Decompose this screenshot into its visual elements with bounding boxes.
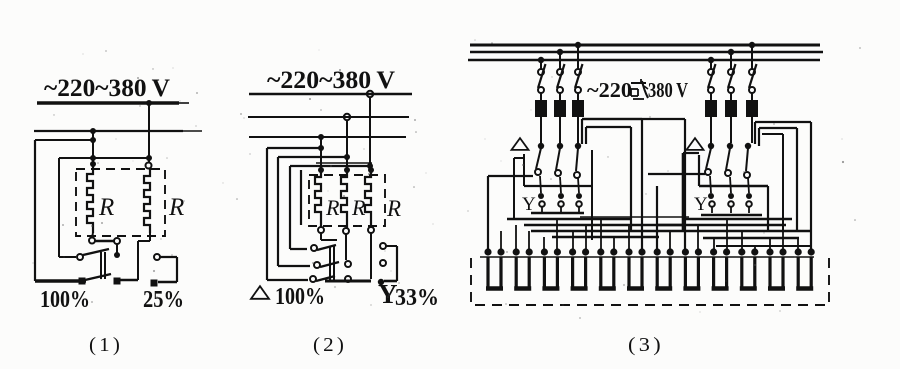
crossing wire at resistor tops: [316, 162, 372, 164]
triangle symbol (100%): [251, 286, 269, 299]
triangle symbol (left group): [512, 138, 529, 150]
resistor R2 (right comb): [144, 168, 150, 233]
resistor comb R2 (circuit 2): [341, 170, 347, 228]
knife switch + fuse column B (right group): [725, 49, 737, 143]
label Y (left group): [522, 194, 536, 215]
outer left wire bottom to terminal: [35, 279, 86, 282]
contact circle above right resistor: [146, 163, 152, 169]
dashed enclosure (circuit 1 resistor box): [76, 169, 165, 236]
routing wire y246 right: [716, 245, 811, 247]
label 100% (circuit 2): [275, 284, 325, 310]
resistor bank grid (11 U elements): [480, 257, 814, 289]
routing wire y237 right: [703, 237, 799, 239]
label R (right of box): [168, 194, 184, 221]
caption (3): [628, 334, 664, 356]
wire centre terminal to R2 bottom: [120, 233, 150, 280]
svg-text:R: R: [386, 196, 401, 221]
switch blades circuit2: [316, 245, 339, 281]
wire R1 bottom to centre contact: [95, 240, 114, 243]
phase wire V3: [318, 137, 324, 168]
wire top route 2 (right): [759, 128, 797, 232]
dashed enclosure (circuit 2 resistor box): [309, 175, 385, 226]
svg-text:25%: 25%: [143, 287, 184, 313]
switch blade lower: [85, 274, 111, 280]
caption (1): [89, 334, 123, 356]
knife switch + fuse column A (left group): [535, 57, 547, 143]
knife switch + fuse column C (right group): [746, 42, 758, 143]
routing wire y219 right: [683, 218, 792, 220]
left contact circles (delta switch): [310, 245, 320, 282]
tap wire 2 (V2 to left rail): [278, 157, 347, 266]
wire phase tap down to R (right vertical): [146, 103, 152, 162]
resistor comb R1 (circuit 2): [315, 170, 321, 228]
outer left wire down: [34, 140, 36, 281]
triangle symbol (right group): [687, 138, 704, 150]
supply line L1 (circuit 2): [249, 93, 412, 95]
label 380V: [648, 78, 688, 102]
wire top route 1 (left): [582, 119, 642, 250]
label R (inside box): [98, 194, 114, 221]
routing wire y237: [552, 236, 659, 238]
Y common bar (left group): [531, 212, 584, 215]
scan speckle noise: [32, 39, 861, 319]
wire inner left down: [59, 158, 149, 260]
label 100%: [40, 287, 90, 313]
routing wire y225: [524, 224, 683, 226]
svg-text:100%: 100%: [40, 287, 90, 313]
switch blade upper: [83, 249, 109, 255]
svg-text:100%: 100%: [275, 284, 325, 310]
tap wire 1 (V3 to left rail): [267, 148, 321, 280]
frame wire left cluster: [514, 150, 592, 240]
terminal square centre: [114, 278, 121, 285]
tap wire 3 (V1 to left rail): [290, 166, 370, 249]
svg-text:~220~380 V: ~220~380 V: [267, 67, 395, 94]
routing wire y225 right: [657, 224, 786, 226]
bus line B2: [470, 51, 823, 53]
hanzi huo (or): [631, 79, 648, 99]
svg-text:~220: ~220: [587, 78, 632, 102]
dashed enclosure (resistor bank): [471, 258, 829, 305]
wire feed drop to bank leg 1: [487, 176, 489, 250]
contact circle tap on L2: [344, 114, 350, 120]
wire top route 3 (right): [762, 134, 783, 232]
svg-text:380 V: 380 V: [648, 78, 688, 102]
wire comb2 bottom down: [345, 234, 347, 260]
label R second: [351, 195, 366, 220]
knife switch + fuse column A (right group): [705, 57, 717, 143]
contact circles at comb bottoms: [318, 227, 374, 234]
junction dot tap on L3: [318, 134, 324, 140]
contact circle at R1 bottom: [89, 233, 95, 244]
terminal square left (100%): [79, 278, 86, 285]
inner left rail: [300, 170, 302, 225]
Y common bar (right group): [701, 214, 762, 217]
wire from L2 tap to outer left wire: [35, 139, 93, 141]
label Y33%: [378, 279, 439, 311]
switch bar (double insulator): [101, 252, 105, 279]
wire top route 1 (right): [755, 122, 811, 250]
svg-text:33%: 33%: [395, 285, 439, 311]
supply line L3 (circuit 2): [249, 136, 406, 138]
resistor bank terminal dots: [484, 248, 814, 255]
knife switch + fuse column B (left group): [554, 49, 566, 143]
supply line L2 (circuit 2): [248, 116, 409, 118]
phase wire V2: [344, 120, 350, 168]
label Y (right group): [694, 194, 708, 215]
wire phase tap down to R (left vertical): [90, 131, 96, 167]
phase wire V1: [367, 97, 373, 169]
wire feed to left contactor: [488, 175, 533, 177]
terminal dots at comb tops: [318, 167, 374, 173]
25% jumper wire: [158, 257, 177, 282]
wire feed to right contactor: [648, 174, 705, 250]
bus line B1: [470, 44, 820, 47]
wire comb1 bottom down: [321, 233, 337, 240]
svg-text:~220~380 V: ~220~380 V: [44, 75, 170, 102]
svg-text:R: R: [168, 194, 184, 221]
terminal square right (25%): [151, 280, 158, 287]
label R third: [386, 196, 401, 221]
svg-text:R: R: [325, 195, 340, 220]
svg-text:R: R: [98, 194, 114, 221]
label ~220 or 380V: [587, 78, 632, 102]
thin crossing wire y217: [580, 216, 689, 218]
resistor R1 (left comb): [87, 166, 93, 233]
supply line L1 (circuit 1): [37, 101, 189, 105]
contactor group (left) with delta and Y rows: [535, 143, 582, 213]
wire centre contact down: [114, 244, 120, 258]
label 25%: [143, 287, 184, 313]
knife switch + fuse column C (left group): [572, 42, 584, 143]
contact circle centre top: [114, 238, 120, 244]
bottom thick wire: [325, 280, 371, 283]
wire top route 2 (left): [582, 119, 685, 250]
drop wires to resistor bank: [501, 219, 798, 251]
bus line B3: [468, 59, 820, 61]
centre contact circles: [345, 261, 351, 282]
supply line L2 (circuit 1): [34, 130, 202, 132]
junction dot L2/phase tap: [90, 128, 96, 134]
label ~220~380V supply (circuit 1): [44, 75, 170, 102]
label R first: [325, 195, 340, 220]
wire comb3 bottom down: [370, 233, 372, 279]
frame wire right cluster: [683, 153, 768, 232]
routing wire y219: [507, 218, 631, 220]
svg-text:(2): (2): [313, 334, 347, 356]
junction dot L1/phase tap: [146, 100, 152, 106]
svg-text:R: R: [351, 195, 366, 220]
25% jumper contact circle: [154, 254, 160, 260]
routing wire y231 (long crossing): [531, 230, 811, 232]
svg-text:(1): (1): [89, 334, 123, 356]
switch bar circuit2: [330, 246, 334, 281]
contact circle tap on L1: [367, 91, 373, 97]
svg-text:Y: Y: [694, 194, 708, 215]
label ~220~380V supply (circuit 2): [267, 67, 395, 94]
resistor comb R3 (circuit 2): [365, 170, 371, 228]
svg-text:(3): (3): [628, 334, 664, 356]
caption (2): [313, 334, 347, 356]
Y jumper circuit2: [378, 243, 397, 285]
contactor group (right) with delta and Y rows: [705, 143, 752, 213]
